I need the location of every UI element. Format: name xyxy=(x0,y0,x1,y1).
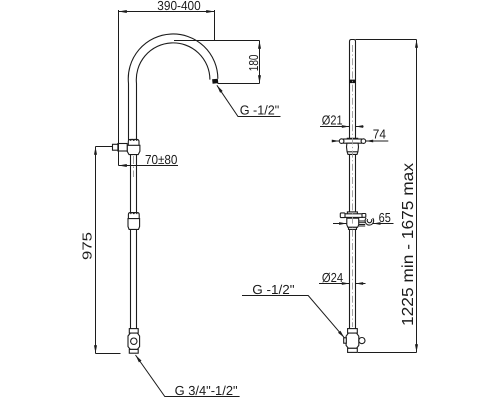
upper fitting cap arcs xyxy=(131,139,137,141)
top slider left knob xyxy=(339,139,344,144)
rail joint band xyxy=(350,80,356,84)
svg-text:180: 180 xyxy=(246,55,261,72)
svg-text:G -1/2": G -1/2" xyxy=(252,282,295,297)
right bottom fitting knob xyxy=(359,338,365,344)
arrow 975 bottom xyxy=(94,345,97,353)
arrow 74 right xyxy=(366,140,374,143)
lower slider boss xyxy=(347,212,357,218)
arrow 180 top xyxy=(258,41,261,49)
lower slider body xyxy=(347,218,359,227)
dim 70+-80 line xyxy=(119,165,179,167)
arrow 390-400 left xyxy=(119,10,127,13)
lower slider left tab xyxy=(340,213,345,218)
top slider body line xyxy=(347,151,358,153)
dim O21 right line xyxy=(356,126,364,128)
mid fitting cap xyxy=(128,213,139,219)
arrow G3/4 leader xyxy=(136,355,142,362)
top slider right knob xyxy=(361,139,366,144)
lower slider right clamp xyxy=(359,221,366,226)
svg-text:390-400: 390-400 xyxy=(157,0,200,13)
upper fitting nozzle cap xyxy=(113,144,118,150)
rail tube right xyxy=(350,40,356,329)
left column tube xyxy=(131,155,137,329)
gooseneck inner arc xyxy=(136,43,210,140)
spout outlet tip xyxy=(212,79,218,84)
upper fitting cap xyxy=(128,139,139,145)
svg-text:975: 975 xyxy=(80,232,95,260)
arrow G-1/2 right leader xyxy=(338,331,344,338)
top slider boss xyxy=(347,138,357,143)
dim 74 right line xyxy=(366,140,389,142)
leader G-1/2 right xyxy=(242,296,344,338)
right bottom fitting flange xyxy=(348,348,358,352)
arrow 390-400 right xyxy=(206,10,214,13)
dim 1225 line xyxy=(416,40,418,353)
dim O24 right line xyxy=(356,283,366,285)
upper fitting nozzle xyxy=(118,144,127,152)
rail centerline xyxy=(352,45,354,327)
dim 65 left line xyxy=(333,223,347,225)
right bottom fitting left tab xyxy=(344,338,347,343)
dim 390-400 extension left xyxy=(118,10,120,166)
svg-text:Ø24: Ø24 xyxy=(322,270,343,285)
dim 975 top extension xyxy=(96,146,113,148)
left bottom fitting body xyxy=(128,333,140,349)
dim 975 bottom extension xyxy=(96,353,121,355)
dim 180 top line xyxy=(174,40,260,42)
lower slider bottom cap xyxy=(349,227,357,229)
right bottom fitting collar xyxy=(348,329,358,334)
left column centerline xyxy=(133,156,135,177)
svg-text:65: 65 xyxy=(379,210,391,225)
arrow O24 right xyxy=(356,282,364,285)
right bottom fitting body xyxy=(346,333,359,348)
arrow 1225 bottom xyxy=(415,344,418,352)
leader G3/4 bottom diagonal xyxy=(136,355,240,397)
svg-text:74: 74 xyxy=(373,126,386,141)
arrow 65 right xyxy=(373,222,381,225)
dim 74 left line xyxy=(332,140,340,142)
left bottom fitting flange xyxy=(129,349,138,353)
arrow 70+-80 xyxy=(119,164,127,167)
lower slider crossbar xyxy=(344,214,362,218)
dim 180 line xyxy=(259,41,261,84)
arrow spout leader xyxy=(217,85,223,93)
gooseneck outer arc xyxy=(128,34,218,140)
top slider body xyxy=(347,143,359,154)
dim O21 left line xyxy=(320,126,350,128)
dim 180 bottom line xyxy=(218,83,260,85)
handset hook xyxy=(365,218,374,225)
lower slider right tab xyxy=(362,214,366,218)
dim 975 line xyxy=(95,147,97,354)
leader G-1/2 top diagonal xyxy=(217,85,281,116)
dim O24 left line xyxy=(319,283,350,285)
arrow 180 bottom xyxy=(258,75,261,83)
left bottom fitting collar xyxy=(129,329,138,334)
mid fitting cap arcs xyxy=(131,213,137,215)
arrow 975 top xyxy=(94,147,97,155)
arrow 74 left xyxy=(332,140,340,143)
left bottom fitting circle xyxy=(131,338,137,344)
dim 1225 top line xyxy=(356,39,417,41)
mid fitting body xyxy=(128,219,140,230)
dim 65 right line xyxy=(373,223,394,225)
dim 1225 bottom line xyxy=(358,352,417,354)
arrow O21 right xyxy=(356,125,364,128)
top slider crossbar xyxy=(344,139,362,143)
dim 390-400 line xyxy=(119,11,215,13)
svg-text:Ø21: Ø21 xyxy=(322,112,343,127)
svg-text:G -1/2": G -1/2" xyxy=(240,102,280,117)
svg-text:1225 min - 1675 max: 1225 min - 1675 max xyxy=(400,163,417,326)
arrow 1225 top xyxy=(415,40,418,48)
svg-text:70±80: 70±80 xyxy=(145,152,178,167)
arrow O24 left xyxy=(342,282,350,285)
upper fitting body xyxy=(127,145,140,154)
arrow 65 left xyxy=(339,222,347,225)
arrow O21 left xyxy=(342,125,350,128)
dim 390-400 extension right xyxy=(214,10,216,41)
svg-text:G 3/4"-1/2": G 3/4"-1/2" xyxy=(175,383,238,398)
